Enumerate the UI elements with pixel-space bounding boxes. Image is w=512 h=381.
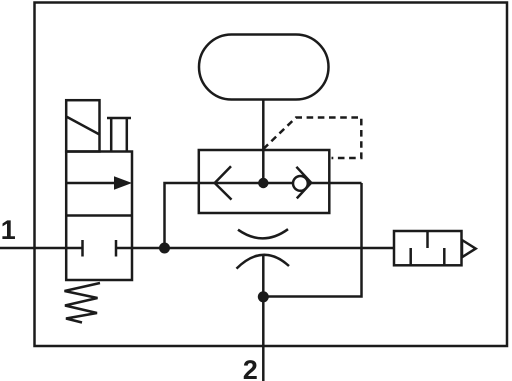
- solenoid diagonal: [66, 117, 99, 135]
- solenoid coil Y1: [66, 100, 99, 151]
- pilot actuator cap: [107, 117, 131, 120]
- port 1 line: [0, 247, 83, 250]
- valve flow arrowhead: [114, 176, 132, 189]
- silencer body: [394, 231, 462, 265]
- junction dot main line: [159, 243, 170, 254]
- pilot actuator legs: [111, 118, 127, 152]
- valve flow arrow shaft: [66, 182, 117, 185]
- venturi nozzle upper arc: [238, 229, 288, 238]
- flow arrow left: [215, 166, 232, 199]
- vacuum reservoir capsule: [199, 35, 329, 100]
- port label 2: [244, 360, 257, 379]
- pilot dashed line: [263, 118, 361, 159]
- main line to silencer: [132, 247, 394, 250]
- junction dot port 2: [258, 291, 269, 302]
- check valve circle: [293, 176, 308, 191]
- silencer outlet triangle: [462, 240, 476, 257]
- air-saving valve block U1: [199, 150, 329, 213]
- check valve seat: [296, 167, 311, 199]
- silencer baffles: [411, 231, 445, 265]
- blocked port T right: [116, 240, 132, 257]
- return spring: [65, 283, 101, 323]
- wire check valve out, down and left: [263, 183, 361, 297]
- blocked port T left: [81, 240, 84, 257]
- port 2 line: [262, 255, 265, 381]
- junction dot block center: [258, 178, 268, 188]
- riser wire from main line to valve block: [165, 183, 200, 248]
- valve body V1: [66, 152, 132, 281]
- venturi nozzle lower arc: [237, 255, 290, 269]
- port label 1: [2, 220, 15, 239]
- valve position divider: [66, 214, 132, 217]
- wire capsule to block: [262, 100, 265, 184]
- block internal line: [199, 182, 362, 185]
